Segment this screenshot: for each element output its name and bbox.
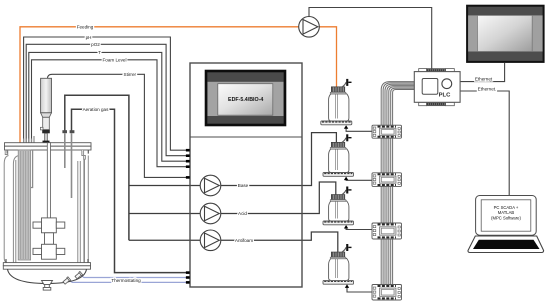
impeller 2 [42, 244, 57, 259]
impeller 1 [42, 218, 57, 233]
bottle B4 (antifoam) [323, 244, 354, 288]
tube Base: pump P1 to bottle B2 [129, 133, 337, 186]
bottom dish [8, 269, 87, 283]
PLC unit [414, 69, 460, 106]
balance module M1 [372, 125, 402, 138]
ribbon cable modules to PLC [381, 82, 414, 300]
wire pO2 [26, 44, 187, 155]
svg-text:T: T [98, 50, 101, 55]
dosing line bus (dark) [65, 95, 129, 240]
vent filter B2 [342, 138, 346, 143]
balance platform B1 [321, 121, 352, 125]
bottle B1 (feed) [321, 79, 352, 129]
Ethernet wire to laptop [460, 91, 509, 196]
thermostating nozzle 2 [63, 277, 71, 285]
svg-text:EDF-5.4/BIO-4: EDF-5.4/BIO-4 [228, 97, 263, 103]
thermostating line 1 (blue) [80, 275, 187, 278]
aeration port cap [70, 130, 75, 133]
drain valve [42, 281, 53, 285]
balance line bottle3 to module M3 [346, 228, 372, 230]
probe stubs above head plate [24, 136, 34, 143]
balance platform B3 [323, 221, 354, 225]
wire Foam Level [32, 60, 188, 167]
wire Feeding (orange) [20, 27, 337, 144]
svg-text:Ethernet.: Ethernet. [478, 86, 497, 91]
svg-text:Aeration gas: Aeration gas [83, 107, 109, 112]
balance line bottle2 to module M2 [346, 178, 372, 181]
pump P0 (feeding pump) [299, 17, 320, 38]
stirrer shaft [47, 143, 50, 244]
wire from feeding pump to PLC [309, 8, 432, 70]
shaft segment between impellers [45, 233, 54, 245]
laptop (PC SCADA + MATLAB) [468, 196, 544, 253]
svg-text:Feeding: Feeding [77, 24, 94, 29]
pump P1 (Base) [200, 175, 221, 196]
svg-text:pO2: pO2 [91, 42, 100, 47]
bottle B2 (base) [323, 134, 354, 180]
svg-text:Antifoam: Antifoam [235, 238, 253, 243]
dosing port cap [62, 130, 67, 133]
connector pins on control box left edge [186, 149, 190, 284]
svg-text:Stirrer: Stirrer [124, 72, 137, 77]
svg-text:Ethernet: Ethernet [475, 77, 493, 82]
svg-text:(MPC Software): (MPC Software) [491, 215, 521, 220]
balance module M3 [372, 223, 402, 239]
stirrer motor [41, 78, 52, 113]
pump P3 (Antifoam) [200, 230, 221, 251]
svg-text:Thermostating: Thermostating [111, 278, 141, 283]
tube Antifoam: pump P3 to bottle B4 [129, 232, 338, 252]
svg-text:PLC: PLC [439, 92, 452, 98]
bottom flange [3, 263, 90, 266]
bottle B3 (acid) [323, 187, 354, 229]
arrow B1 [344, 125, 348, 129]
thermostating nozzle 1 [75, 271, 83, 279]
wire T [29, 52, 187, 161]
head plate (top flange) [5, 143, 92, 147]
vent filter B1 [342, 82, 346, 87]
svg-text:pH: pH [86, 35, 92, 40]
arrow B4 [345, 284, 349, 288]
dosing dip tube [64, 133, 66, 168]
control unit divider line [190, 136, 302, 138]
balance line bottle1 to module M1 [346, 128, 372, 131]
Ethernet wire to monitor [460, 63, 505, 82]
aeration gas line (dark) [72, 109, 188, 272]
balance module M4 [372, 285, 402, 301]
balance platform B4 [323, 280, 354, 284]
jacket walls [4, 156, 88, 263]
arrow B2 [344, 177, 348, 181]
vent filter B3 [342, 190, 346, 195]
balance module M2 [372, 173, 402, 187]
balance platform B2 [323, 173, 354, 177]
wire pH [24, 37, 187, 150]
control unit display frame [206, 71, 285, 125]
shoulder brackets [5, 150, 8, 155]
tube Acid: pump P2 to bottle B3 [129, 182, 336, 214]
probe bundle inside vessel [18, 150, 30, 260]
thermostating line 2 (blue) [69, 280, 188, 282]
pump P2 (Acid) [200, 203, 221, 224]
bioreactor vessel [3, 78, 91, 290]
control unit EDF-5.4/BIO-4 box [190, 63, 302, 287]
balance line bottle4 to module M4 [347, 287, 372, 292]
svg-text:Base: Base [238, 183, 249, 188]
monitor [466, 5, 544, 63]
svg-text:Acid: Acid [238, 211, 247, 216]
aeration sparger tube [71, 133, 73, 198]
foam probe (short) [31, 150, 33, 188]
vent filter B4 [342, 247, 346, 252]
svg-text:Foam Level: Foam Level [102, 58, 126, 63]
arrow B3 [344, 225, 348, 229]
wire Stirrer [48, 74, 188, 177]
